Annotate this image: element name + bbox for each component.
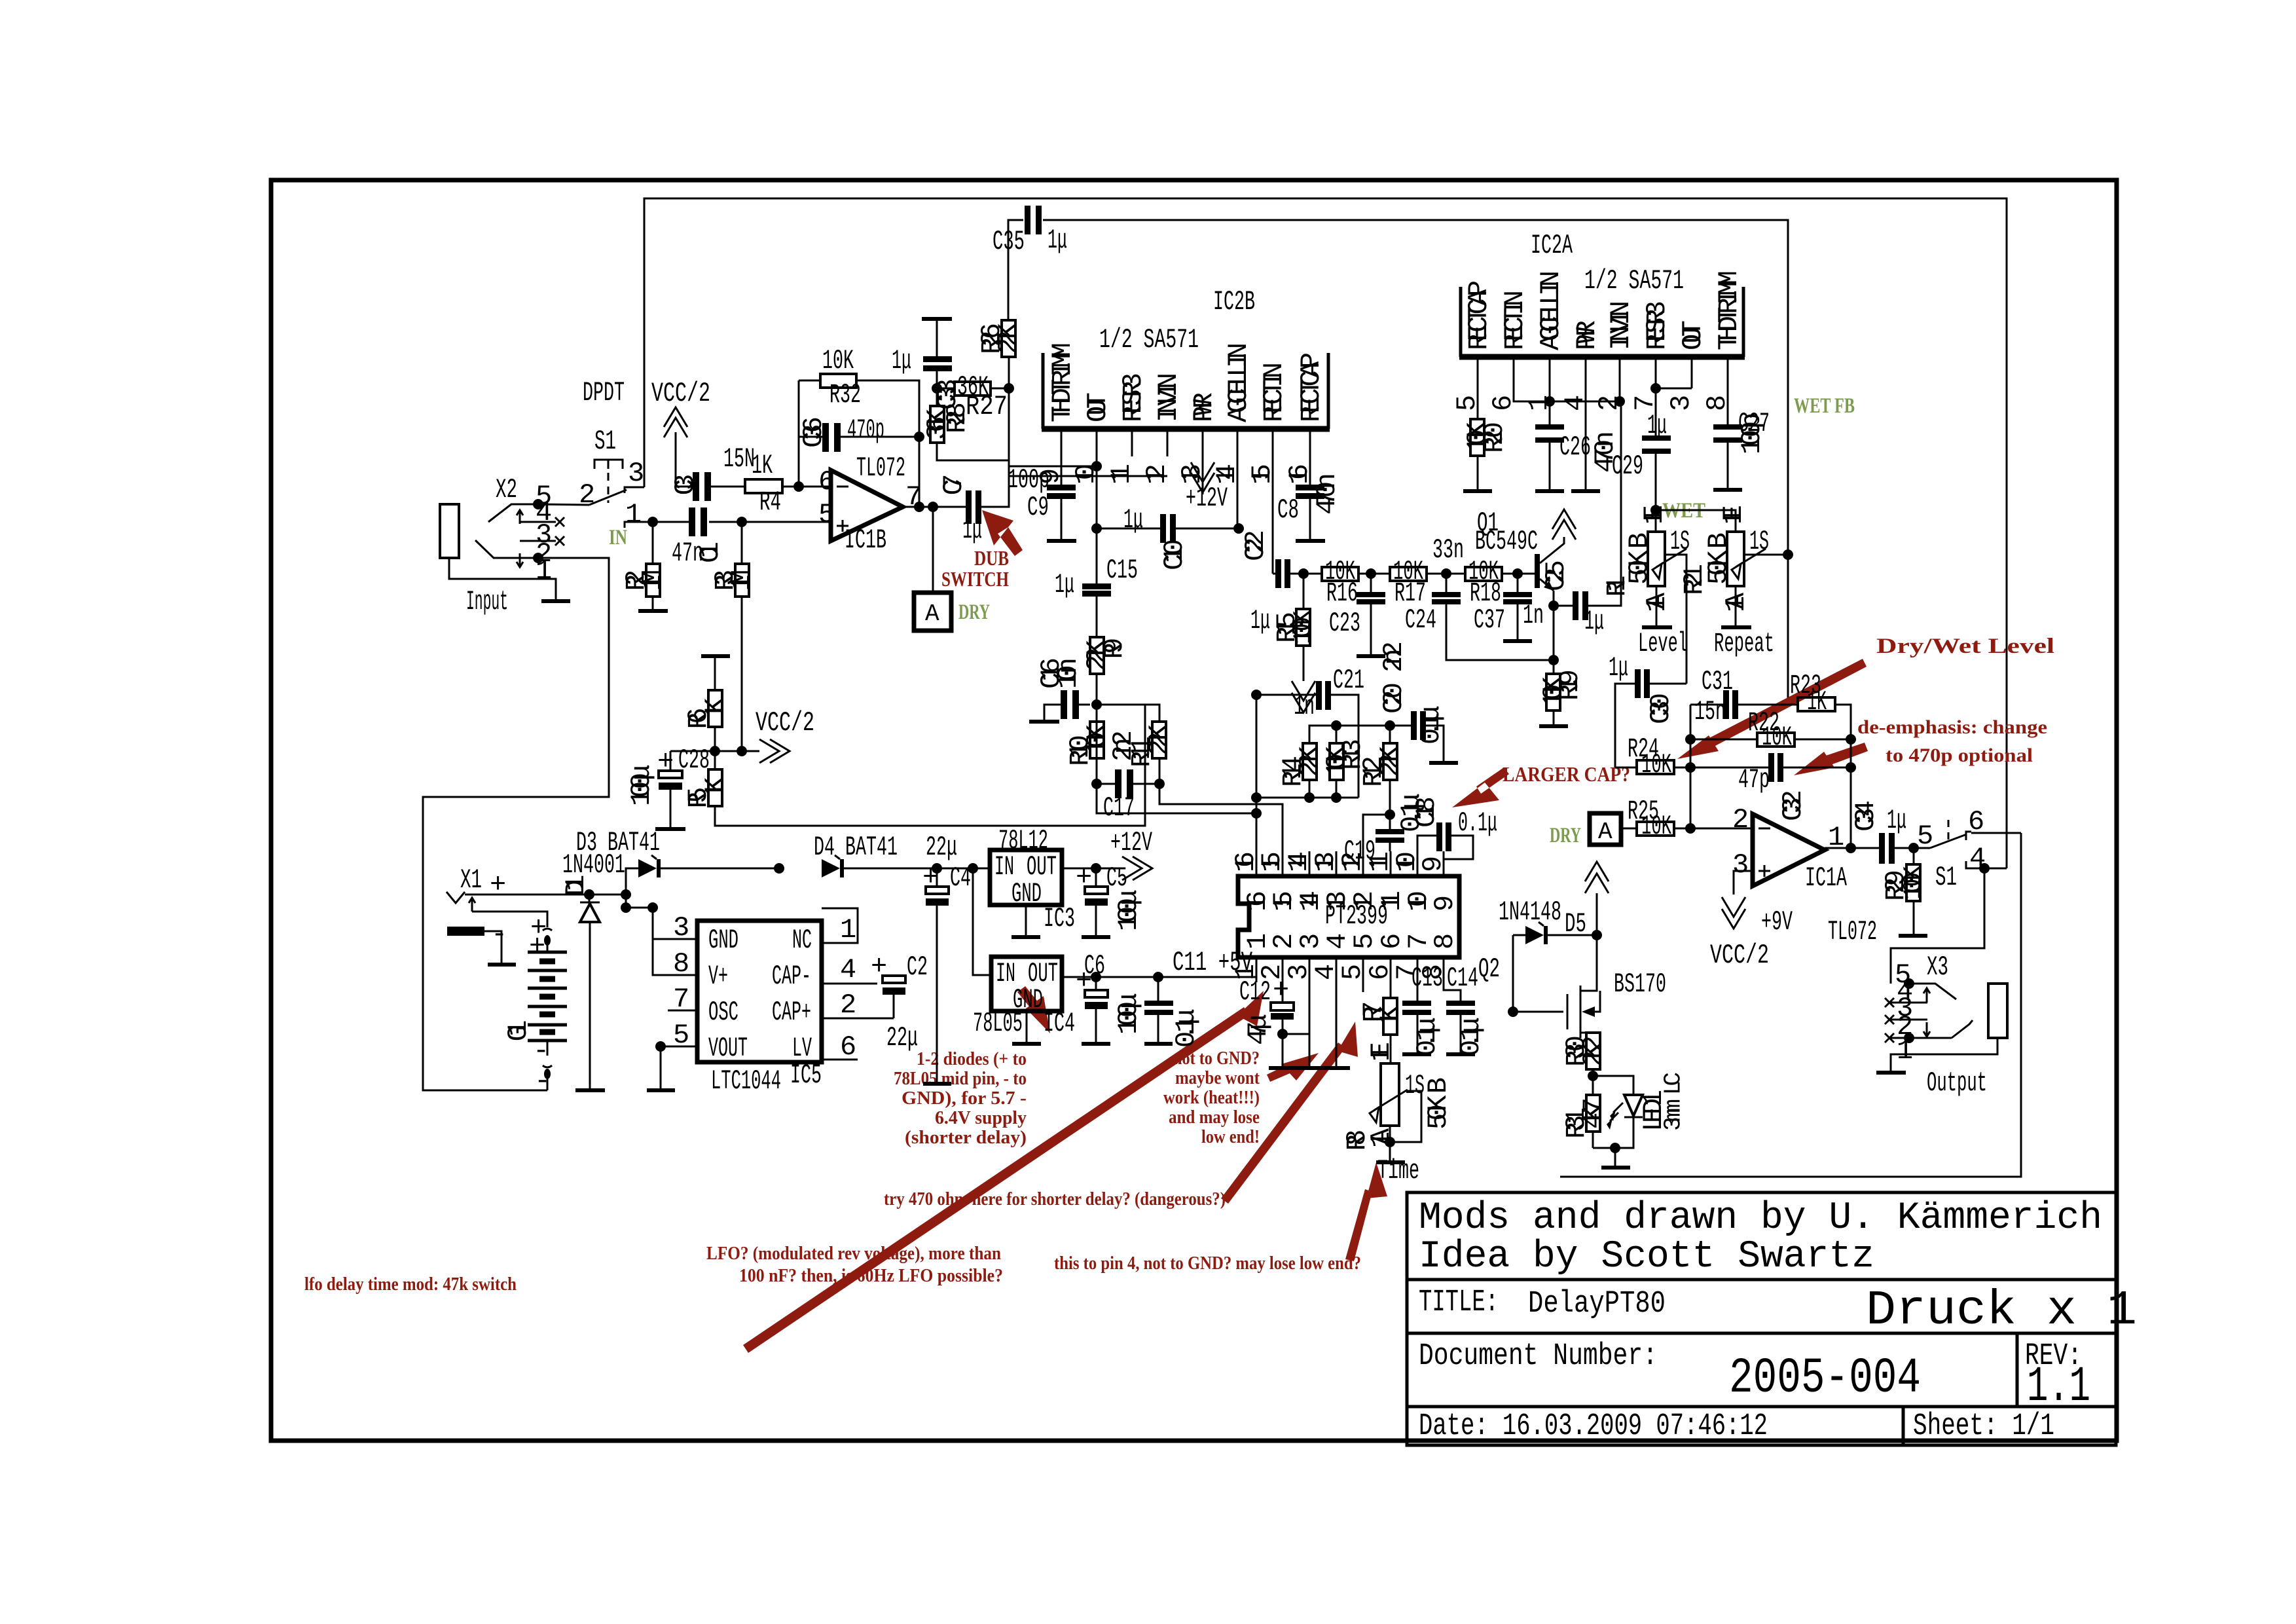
svg-text:V+: V+ — [708, 961, 728, 992]
svg-text:R20: R20 — [1479, 422, 1510, 453]
wire pin10 long chain down — [1096, 456, 1098, 637]
svg-text:100μ: 100μ — [1113, 889, 1144, 931]
IC2A pin stubs — [1478, 360, 1728, 383]
ground X2 — [541, 599, 570, 603]
ground LED — [1601, 1166, 1630, 1170]
svg-text:78L05: 78L05 — [973, 1008, 1023, 1039]
svg-text:lfo delay time mod: 47k switch: lfo delay time mod: 47k switch — [304, 1274, 517, 1295]
svg-text:100μ: 100μ — [626, 764, 657, 806]
capacitor C4 22u electrolytic — [922, 832, 971, 906]
svg-text:2: 2 — [1732, 804, 1749, 836]
svg-text:1: 1 — [1897, 1035, 1913, 1067]
svg-text:IC3: IC3 — [1044, 903, 1075, 934]
svg-text:Repeat: Repeat — [1714, 628, 1774, 659]
resistor R26 22K — [976, 320, 1025, 357]
svg-text:DRY: DRY — [958, 600, 990, 624]
svg-text:1μ: 1μ — [1055, 569, 1074, 600]
svg-text:C13: C13 — [1412, 963, 1443, 994]
wire pin1 to +5V rail — [1256, 977, 1258, 982]
red arrow de-emphasis to C32 — [1794, 743, 1868, 775]
wire emitter down — [1553, 591, 1555, 674]
svg-text:1E: 1E — [1366, 1042, 1397, 1061]
PT2399 pin stubs top — [1256, 851, 1444, 876]
svg-text:IC2A: IC2A — [1531, 230, 1573, 261]
svg-text:C17: C17 — [1103, 792, 1135, 824]
ground Level — [1642, 625, 1672, 629]
svg-text:1μ: 1μ — [1609, 652, 1628, 684]
capacitor C27 100p — [1713, 413, 1768, 454]
+12V arrow — [1122, 857, 1152, 880]
svg-text:1E: 1E — [1639, 505, 1670, 525]
svg-text:4: 4 — [840, 954, 856, 986]
X1 tip contact — [446, 892, 465, 903]
svg-text:C35: C35 — [993, 226, 1025, 257]
svg-text:R4: R4 — [759, 487, 781, 518]
svg-text:R19: R19 — [1554, 669, 1586, 701]
svg-text:6: 6 — [818, 466, 835, 498]
svg-text:R10: R10 — [1065, 735, 1096, 766]
capacitor C34 1u — [1850, 800, 1906, 864]
resistor R7 1K — [1358, 998, 1406, 1035]
svg-text:1μ: 1μ — [1647, 410, 1667, 441]
svg-text:R16: R16 — [1326, 578, 1358, 609]
svg-text:to 470p optional: to 470p optional — [1886, 745, 2033, 766]
svg-text:C9: C9 — [1027, 492, 1049, 523]
wire C32 row — [1690, 767, 1851, 769]
svg-text:47μ: 47μ — [1243, 1014, 1274, 1045]
wire bottoms row R14 R13 — [1256, 797, 1358, 799]
svg-text:R23: R23 — [1790, 670, 1821, 701]
svg-text:AGCELLIN: AGCELLIN — [1535, 270, 1567, 350]
svg-text:Time: Time — [1377, 1155, 1419, 1187]
svg-text:R7: R7 — [1358, 1001, 1389, 1023]
svg-text:78L12: 78L12 — [998, 825, 1048, 857]
svg-text:INVIN: INVIN — [1605, 301, 1637, 350]
svg-text:IC2B: IC2B — [1213, 286, 1255, 318]
capacitor C13 0.1u — [1402, 963, 1443, 1056]
svg-text:de-emphasis: change: de-emphasis: change — [1857, 716, 2047, 738]
title block outer box — [1407, 1192, 2116, 1445]
svg-text:low end!: low end! — [1201, 1127, 1260, 1147]
svg-text:Q2: Q2 — [1478, 953, 1500, 985]
capacitor C16 10n — [1036, 657, 1084, 719]
IC2B pin names — [1047, 342, 1327, 422]
svg-text:C37: C37 — [1474, 604, 1505, 636]
ground C20 — [1429, 761, 1458, 765]
svg-text:Input: Input — [466, 586, 508, 618]
wire pin4 pin2 to C2 — [822, 984, 894, 1018]
wire R6 — [714, 656, 716, 769]
svg-text:36K: 36K — [922, 408, 953, 440]
resistor R5 1K — [683, 769, 731, 809]
wire R11 bottom to PT pin15 — [1159, 758, 1283, 851]
wire Level to ground — [1656, 586, 1658, 625]
ground IC4 — [1012, 1042, 1041, 1046]
node: X2 tip dot — [533, 499, 543, 509]
svg-text:1S: 1S — [1405, 1070, 1425, 1101]
wire IC1A output — [1825, 847, 1879, 849]
wire VCC/2 node — [670, 750, 759, 752]
svg-text:1K: 1K — [752, 450, 773, 481]
resistor R9 22K — [1082, 637, 1130, 674]
svg-text:R30: R30 — [1561, 1035, 1592, 1067]
svg-text:C18: C18 — [1411, 796, 1442, 828]
svg-text:IC4: IC4 — [1044, 1008, 1075, 1039]
svg-text:IC1A: IC1A — [1805, 862, 1847, 894]
resistor R15 100K — [1271, 609, 1318, 646]
svg-text:R3: R3 — [710, 570, 741, 591]
wire S1 pin1 to C1 line — [630, 521, 831, 523]
transistor Q2 BS170 — [1478, 935, 1666, 1038]
svg-text:+12V: +12V — [1186, 483, 1228, 514]
svg-text:work (heat!!!): work (heat!!!) — [1163, 1088, 1260, 1108]
wire pin8 to C27 — [1727, 383, 1729, 424]
svg-text:C3: C3 — [670, 474, 701, 496]
wire LED node to ground — [1614, 1148, 1616, 1166]
resistor R30 2K2 — [1561, 1033, 1609, 1069]
resistor R28 36K — [922, 406, 953, 443]
wire DUB box drop — [932, 507, 934, 593]
wire R12 top/bottom — [1389, 726, 1391, 829]
svg-text:+: + — [871, 951, 887, 982]
resistor R32 10K — [820, 345, 861, 411]
svg-text:Idea by Scott Swartz: Idea by Scott Swartz — [1419, 1236, 1874, 1278]
svg-text:LTC1044: LTC1044 — [711, 1065, 781, 1097]
IC2B pin stubs — [1061, 432, 1310, 456]
ground IC5 — [647, 1088, 675, 1092]
capacitor C14 0.1u — [1446, 963, 1487, 1056]
svg-text:+: + — [1273, 974, 1289, 1006]
wire C21 row — [1256, 695, 1358, 798]
ground C13 — [1402, 1052, 1431, 1056]
wire D5 anode loop to gate — [1513, 935, 1563, 1012]
wire C23 to ground — [1370, 574, 1372, 654]
wire pin7 to C29 and pin3 jog — [1656, 383, 1692, 435]
connector X2 input jack body — [440, 504, 459, 558]
capacitor C11 0.1u — [1144, 947, 1252, 1048]
svg-text:DPDT: DPDT — [583, 377, 625, 409]
svg-text:Dry/Wet Level: Dry/Wet Level — [1876, 635, 2054, 658]
X3 pin3 line — [1885, 1015, 1927, 1024]
op-amp IC1A TL072 — [1732, 804, 1877, 948]
X3 arrow down — [1923, 1022, 1930, 1037]
svg-text:C20: C20 — [1378, 682, 1410, 714]
svg-text:(shorter delay): (shorter delay) — [905, 1128, 1027, 1148]
capacitor C2 22u electrolytic — [871, 951, 928, 1054]
red arrow this-to-pin4 to Time — [1345, 1162, 1387, 1261]
wire C30 row — [1615, 684, 1686, 767]
wire pin5 to R20 to ground — [1477, 383, 1479, 489]
wire C31 row — [1690, 704, 1798, 706]
wire pin1 to C26 — [1549, 383, 1551, 424]
X2 pin3 line with x — [520, 536, 564, 545]
svg-text:R6: R6 — [683, 708, 714, 729]
wire C4 — [936, 868, 938, 1082]
svg-text:+12V: +12V — [1110, 827, 1152, 858]
svg-text:RECTIN: RECTIN — [1499, 290, 1531, 350]
capacitor C5 100u electrolytic — [1076, 862, 1144, 931]
svg-text:IC1B: IC1B — [845, 525, 886, 556]
capacitor C10 1u — [1123, 504, 1190, 570]
potentiometer R21 Repeat 50K B — [1679, 505, 1788, 612]
wire pin5 stub — [1362, 982, 1364, 992]
svg-text:12: 12 — [1349, 891, 1380, 912]
svg-text:X1: X1 — [460, 864, 482, 896]
wire pin4 to X3 tip — [1891, 868, 1984, 984]
PT2399 pin stubs bottom — [1256, 957, 1444, 982]
regulator IC4 78L05 — [973, 957, 1075, 1039]
X3 sleeve body — [1988, 984, 2007, 1038]
node dots R27 — [932, 383, 942, 394]
potentiometer R1 Level 50K B — [1624, 505, 1690, 684]
red long arrow LFO to C12 — [743, 991, 1264, 1353]
wire IC3 out rail — [1062, 868, 1121, 870]
svg-text:Mods and drawn by U. Kämmerich: Mods and drawn by U. Kämmerich — [1419, 1197, 2102, 1240]
wire V+ feed — [626, 895, 697, 975]
PT2399 inner numbers bottom — [1242, 933, 1461, 950]
capacitor C24 — [1405, 592, 1461, 636]
wire C26 to ground — [1549, 443, 1551, 489]
svg-text:G1: G1 — [503, 1020, 534, 1042]
capacitor C12 47u electrolytic — [1239, 974, 1294, 1045]
wire C11 — [1157, 977, 1159, 1042]
svg-text:1/2 SA571: 1/2 SA571 — [1584, 265, 1684, 297]
svg-text:Output: Output — [1927, 1067, 1987, 1099]
svg-text:10n: 10n — [1053, 657, 1084, 689]
svg-text:+: + — [529, 931, 545, 962]
PT2399 outside numbers top — [1230, 851, 1449, 872]
IC IC2B outline — [1043, 353, 1328, 429]
red note not-to-GND block — [1163, 1048, 1260, 1147]
svg-text:Document Number:: Document Number: — [1419, 1339, 1658, 1374]
node dots on C1 line — [647, 517, 658, 527]
resistor R18 10K — [1465, 556, 1502, 609]
X3 tip contact — [1909, 984, 1956, 999]
S1 dashed link — [608, 473, 610, 503]
capacitor C8 470n — [1277, 473, 1343, 526]
svg-text:SWITCH: SWITCH — [941, 567, 1009, 591]
ground R20 — [1463, 489, 1492, 493]
wire output to C36 node — [919, 388, 920, 507]
wire C5 — [1095, 868, 1097, 935]
svg-text:3: 3 — [1732, 849, 1749, 881]
wire +9V to drain node — [1596, 893, 1598, 935]
svg-text:Sheet: 1/1: Sheet: 1/1 — [1913, 1409, 2054, 1444]
svg-text:RESR3: RESR3 — [1641, 301, 1673, 350]
wire R10 bottom to PT pin16 — [1097, 784, 1256, 813]
capacitor C6 100u electrolytic — [1076, 950, 1144, 1035]
svg-text:22μ: 22μ — [886, 1022, 918, 1054]
ground X3 — [1876, 1071, 1906, 1075]
svg-text:100p: 100p — [1008, 464, 1049, 496]
red arrow not-to-GND — [1267, 1053, 1319, 1082]
wire R29 to ground — [1913, 848, 1915, 934]
battery G1 — [503, 912, 567, 1097]
capacitor C3 15N — [670, 443, 755, 501]
wire C29 to WET node — [1655, 454, 1657, 510]
wire Repeat to ground — [1735, 586, 1737, 625]
svg-text:IC5: IC5 — [790, 1060, 822, 1091]
capacitor C35 — [993, 206, 1067, 257]
red arrow to dub node — [982, 510, 1023, 556]
wire pin9 to C9 — [1061, 456, 1063, 485]
svg-text:15N: 15N — [723, 443, 755, 475]
svg-text:10K: 10K — [822, 345, 854, 377]
resistor R23 1K — [1790, 670, 1835, 718]
capacitor C37 1n — [1474, 592, 1544, 636]
wire pin6 stub — [822, 1059, 858, 1061]
svg-text:3mm LC: 3mm LC — [1660, 1072, 1687, 1131]
svg-text:C36: C36 — [798, 416, 829, 448]
wire C8 to ground — [1309, 499, 1311, 540]
svg-text:5: 5 — [818, 499, 835, 530]
svg-text:R2: R2 — [621, 570, 652, 591]
IC IC2A outline — [1461, 287, 1743, 357]
S1 actuator bracket — [594, 460, 623, 469]
wire pin14 down — [1237, 456, 1239, 528]
svg-text:12: 12 — [1141, 464, 1173, 485]
wire pin2 C12 to gnd rail — [1283, 982, 1336, 1066]
svg-text:C24: C24 — [1405, 604, 1436, 636]
ground IC3 — [1011, 935, 1040, 939]
svg-text:C10: C10 — [1159, 539, 1190, 570]
switch S1 output half — [1917, 806, 2021, 893]
svg-text:maybe wont: maybe wont — [1175, 1068, 1260, 1088]
svg-text:R29: R29 — [1880, 870, 1912, 901]
svg-text:RECTIN: RECTIN — [1258, 362, 1290, 422]
wire C37 to ground — [1517, 574, 1519, 639]
wire R30 to node — [1592, 1069, 1594, 1095]
wire R22 row — [1690, 739, 1851, 741]
wire R8 to ground — [1389, 1126, 1391, 1160]
ground C4 — [923, 1082, 951, 1086]
wire C3 to R4 — [711, 486, 745, 488]
capacitor C25 1u — [1540, 560, 1604, 637]
ground C23 — [1357, 654, 1385, 658]
svg-text:1S: 1S — [1670, 526, 1690, 557]
svg-text:1n: 1n — [1523, 600, 1544, 631]
svg-text:PWR: PWR — [1571, 320, 1603, 350]
svg-text:C4: C4 — [950, 862, 971, 894]
wire C7 to R26 bus — [981, 364, 1009, 507]
svg-text:C19: C19 — [1344, 836, 1376, 867]
svg-text:+9V: +9V — [1761, 906, 1793, 938]
svg-text:2n2: 2n2 — [1108, 730, 1139, 762]
svg-text:DRY: DRY — [1550, 824, 1581, 847]
wire R14 R13 tops rail — [1309, 726, 1411, 798]
ground R19 — [1539, 724, 1568, 728]
svg-text:NC: NC — [792, 925, 812, 956]
resistor R24 10K — [1628, 733, 1674, 781]
svg-text:TITLE:: TITLE: — [1419, 1285, 1499, 1320]
svg-text:VCC/2: VCC/2 — [756, 707, 814, 739]
ground R8 — [1376, 1160, 1405, 1164]
X2 ring contact — [475, 540, 538, 558]
wire R32 — [799, 380, 919, 423]
wire IC3 gnd — [1025, 905, 1027, 935]
svg-text:R14: R14 — [1277, 756, 1309, 787]
svg-text:RECTCAP: RECTCAP — [1463, 280, 1495, 350]
DRY net box A — [1590, 813, 1621, 845]
capacitor C19 0.1u — [1344, 793, 1427, 867]
diode D5 1N4148 — [1499, 896, 1597, 944]
svg-text:1/2 SA571: 1/2 SA571 — [1099, 324, 1199, 356]
capacitor C32 47p — [1738, 753, 1809, 821]
wire S1 pin4 node — [1971, 868, 2007, 870]
LED LED1 — [1593, 1072, 1687, 1148]
svg-text:R22: R22 — [1748, 707, 1779, 739]
wire R23 to fb bus — [1835, 705, 1851, 848]
red note 1-2 diodes block — [894, 1049, 1027, 1148]
svg-text:1: 1 — [536, 555, 552, 587]
svg-text:C22: C22 — [1240, 530, 1271, 561]
wire C28 — [670, 751, 672, 827]
svg-text:try 470 ohm here for shorter d: try 470 ohm here for shorter delay? (dan… — [884, 1189, 1226, 1209]
svg-text:R9: R9 — [1099, 638, 1130, 659]
svg-text:C21: C21 — [1333, 665, 1364, 696]
svg-text:100p: 100p — [1736, 413, 1768, 454]
svg-text:Druck x 1: Druck x 1 — [1866, 1283, 2137, 1338]
ground C28 — [655, 827, 685, 831]
wire plus up to diode rail — [626, 868, 638, 895]
wire C17 row — [1097, 783, 1159, 785]
S1 pin1 hook — [625, 522, 630, 528]
IC IC5 LTC1044 — [697, 921, 822, 1097]
X3 ring contact — [1889, 1020, 1973, 1038]
svg-text:R12: R12 — [1358, 756, 1389, 787]
svg-text:C1: C1 — [695, 542, 726, 563]
resistor R11 22K — [1126, 722, 1175, 767]
svg-text:33n: 33n — [1432, 534, 1464, 566]
resistor R6 1K — [683, 690, 731, 729]
svg-text:1: 1 — [840, 914, 856, 946]
svg-text:C34: C34 — [1850, 800, 1882, 832]
wire C33 — [936, 319, 938, 388]
svg-text:R5: R5 — [683, 787, 714, 809]
capacitor C22 1u — [1240, 530, 1290, 637]
wire R2 — [652, 522, 654, 609]
wire R25 row — [1621, 828, 1753, 830]
resistor R3 1M — [710, 564, 757, 597]
page border frame — [271, 180, 2117, 1441]
svg-text:X3: X3 — [1927, 951, 1948, 983]
wire C19 to pin11 — [1389, 843, 1391, 851]
X1 second contact arrow — [469, 898, 475, 912]
IC2A pin names — [1463, 270, 1745, 350]
wire R9 to C16 node — [1096, 674, 1098, 784]
ground Repeat — [1721, 625, 1751, 629]
wire C13 — [1417, 982, 1419, 1052]
transistor Q1 BC549C — [1475, 507, 1564, 591]
capacitor C21 1n — [1294, 665, 1364, 722]
svg-text:D1: D1 — [560, 875, 592, 896]
svg-text:1μ: 1μ — [962, 515, 982, 546]
svg-text:C6: C6 — [1084, 950, 1105, 982]
wire R24 — [1615, 767, 1690, 769]
red arrow larger cap — [1452, 767, 1509, 807]
wire C25 to INVIN — [1554, 401, 1621, 606]
svg-text:1μ: 1μ — [1887, 805, 1906, 836]
svg-text:R26: R26 — [976, 323, 1008, 354]
svg-text:1μ: 1μ — [1123, 504, 1143, 536]
wire C24 to emitter rail — [1446, 574, 1554, 660]
wire C36 line — [799, 380, 919, 437]
resistor R2 1M — [621, 564, 668, 597]
wire +5V rail — [1062, 976, 1256, 978]
svg-text:BS170: BS170 — [1614, 969, 1666, 1000]
wire pin1 loop — [822, 908, 858, 943]
svg-text:C7: C7 — [938, 474, 970, 496]
